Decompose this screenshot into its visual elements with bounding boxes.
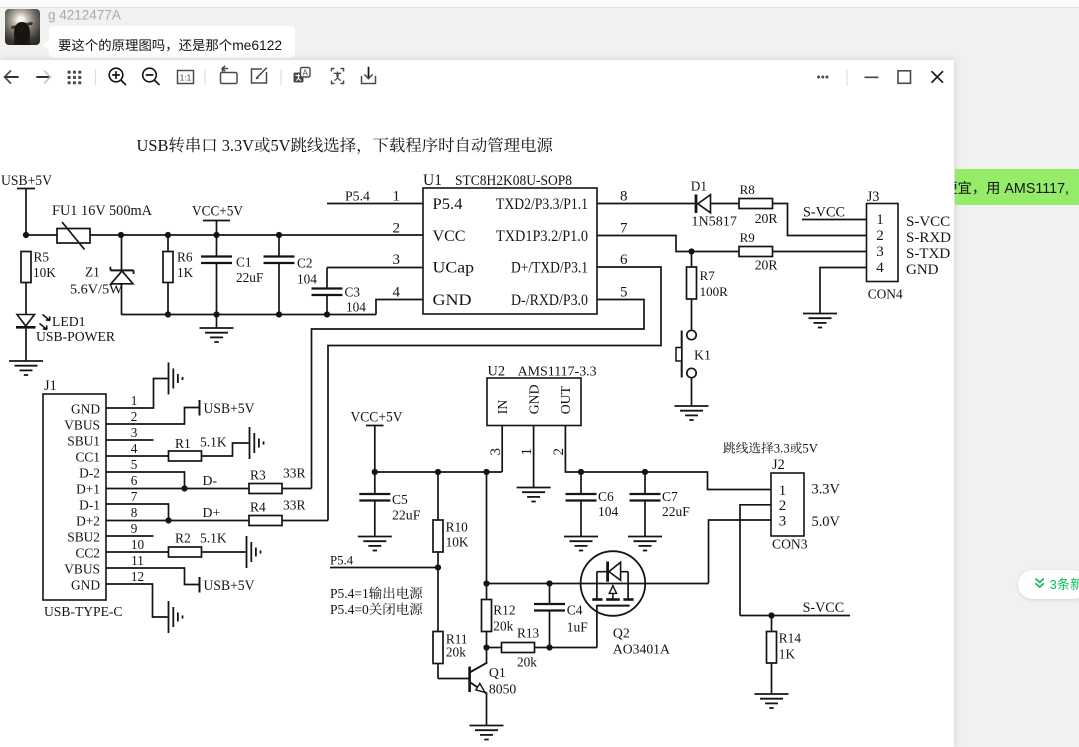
annotation jumper select 3.3 or 5V bbox=[723, 442, 818, 456]
capacitor C5 bbox=[359, 472, 420, 537]
ground J1 pin1 (rotated) bbox=[169, 363, 183, 395]
capacitor C7 bbox=[630, 472, 691, 537]
node bus-C5 bbox=[372, 469, 378, 475]
node rail-R5 bbox=[23, 232, 29, 238]
svg-text:5.1K: 5.1K bbox=[200, 531, 227, 546]
toolbar icon rotate bbox=[221, 66, 238, 84]
resistor R1 bbox=[169, 435, 227, 462]
new message pill text bbox=[1050, 577, 1079, 592]
svg-text:IN: IN bbox=[495, 400, 510, 415]
wire U2 OUT bus bbox=[565, 426, 771, 490]
svg-text:USB+5V: USB+5V bbox=[204, 578, 256, 594]
ground R14 bbox=[755, 694, 789, 708]
svg-text:J2: J2 bbox=[772, 457, 785, 473]
ground LED1 bbox=[9, 361, 43, 375]
svg-text:3: 3 bbox=[876, 244, 884, 260]
diode D1 1N5817 bbox=[691, 179, 737, 230]
svg-text:R14: R14 bbox=[779, 631, 802, 646]
svg-text:D1: D1 bbox=[691, 179, 707, 194]
node out-C7 bbox=[642, 469, 648, 475]
svg-text:5V: 5V bbox=[270, 136, 290, 155]
wire R1 to ground bbox=[202, 443, 249, 456]
toolbar icon zoom in bbox=[109, 68, 125, 84]
resistor R7 bbox=[687, 252, 729, 300]
svg-text:C5: C5 bbox=[392, 492, 408, 507]
svg-text:C6: C6 bbox=[598, 489, 614, 504]
node svcc-R14 bbox=[768, 612, 774, 618]
svg-text:3.3V: 3.3V bbox=[812, 482, 841, 498]
wire J1 pin6 D- bbox=[106, 488, 249, 490]
svg-text:4: 4 bbox=[393, 285, 401, 301]
svg-text:VBUS: VBUS bbox=[64, 561, 100, 576]
new message pill chevron bbox=[1036, 579, 1044, 588]
node rail-C2 bbox=[276, 232, 282, 238]
svg-text:1K: 1K bbox=[779, 647, 796, 662]
avatar bbox=[5, 9, 40, 45]
wire J3 pin4 to ground bbox=[820, 268, 867, 314]
svg-text:SBU1: SBU1 bbox=[67, 433, 100, 448]
ground Q1 bbox=[470, 726, 504, 740]
svg-text:A: A bbox=[303, 68, 309, 77]
svg-text:USB-POWER: USB-POWER bbox=[36, 329, 116, 344]
svg-text:104: 104 bbox=[598, 504, 619, 519]
svg-text:AMS1117-3.3: AMS1117-3.3 bbox=[518, 365, 597, 380]
ground R1 (rotated) bbox=[250, 427, 264, 459]
wire VCC rail bbox=[26, 234, 423, 236]
resistor R11 bbox=[433, 568, 468, 679]
node rail-C1-VCC bbox=[213, 232, 219, 238]
ground U2 bbox=[517, 488, 551, 502]
node row-R12 bbox=[483, 580, 489, 586]
svg-text:4: 4 bbox=[131, 441, 138, 456]
wire J2 pin2 to S-VCC bbox=[740, 505, 771, 616]
svg-text:20k: 20k bbox=[493, 619, 513, 634]
resistor R10 bbox=[433, 472, 469, 568]
wire J1 pin11 to USB+5V bbox=[106, 568, 199, 585]
chat bubble tail bbox=[42, 40, 49, 50]
svg-text:R5: R5 bbox=[34, 249, 50, 264]
svg-text:3: 3 bbox=[131, 425, 138, 440]
resistor R2 bbox=[169, 531, 227, 558]
ground J1 pin12 (rotated) bbox=[169, 601, 183, 633]
svg-text:4: 4 bbox=[876, 260, 884, 276]
svg-text:1:1: 1:1 bbox=[180, 73, 192, 83]
zener diode Z1 bbox=[85, 235, 134, 315]
wire J1 pin5 to D- node bbox=[106, 472, 185, 489]
svg-text:7: 7 bbox=[131, 489, 138, 504]
svg-text:g 4212477A: g 4212477A bbox=[48, 8, 121, 23]
svg-text:R13: R13 bbox=[517, 626, 540, 641]
chat window title strip bbox=[0, 0, 1079, 8]
svg-text:11: 11 bbox=[131, 553, 144, 568]
svg-text:D-/RXD/P3.0: D-/RXD/P3.0 bbox=[511, 292, 588, 309]
svg-text:R1: R1 bbox=[175, 436, 191, 451]
svg-text:K1: K1 bbox=[694, 349, 711, 364]
svg-text:D-: D- bbox=[203, 473, 218, 488]
resistor R14 bbox=[767, 616, 802, 695]
IC U1 STC8H2K08U-SOP8 bbox=[423, 172, 597, 314]
wire R7 to K1 bbox=[691, 299, 693, 330]
svg-text:D+/TXD/P3.1: D+/TXD/P3.1 bbox=[511, 260, 588, 277]
svg-text:SBU2: SBU2 bbox=[67, 529, 100, 544]
resistor R9 bbox=[739, 230, 778, 273]
svg-text:TXD1P3.2/P1.0: TXD1P3.2/P1.0 bbox=[496, 228, 588, 245]
svg-text:R9: R9 bbox=[740, 230, 755, 245]
wire VCC bus to U2 IN bbox=[375, 471, 502, 473]
svg-text:3.3V: 3.3V bbox=[222, 136, 254, 155]
schematic title bbox=[137, 136, 553, 155]
node R12-R13-Q1 bbox=[483, 644, 489, 650]
svg-text:R3: R3 bbox=[250, 468, 266, 483]
resistor R6 bbox=[163, 235, 194, 315]
svg-text:10K: 10K bbox=[446, 535, 469, 550]
node out-C6 bbox=[578, 469, 584, 475]
wire J1 pin1 to ground bbox=[106, 379, 168, 409]
svg-text:USB+5V: USB+5V bbox=[204, 401, 256, 417]
node D+ bbox=[165, 517, 171, 523]
svg-text:U2: U2 bbox=[488, 364, 505, 380]
toolbar icon 1:1 bbox=[178, 71, 194, 84]
toolbar icon grid bbox=[68, 71, 82, 85]
toolbar icon translate bbox=[294, 68, 311, 83]
svg-text:5.6V/5W: 5.6V/5W bbox=[70, 282, 123, 297]
wire R13 to gate bbox=[535, 647, 597, 649]
capacitor C2 bbox=[264, 235, 318, 315]
svg-text:USB+5V: USB+5V bbox=[1, 173, 52, 189]
node bus-Q2 source branch bbox=[483, 469, 489, 475]
node P5.4-R10-R11 bbox=[435, 564, 441, 570]
svg-text:5.1K: 5.1K bbox=[200, 435, 227, 450]
resistor R8 bbox=[739, 182, 778, 226]
wire Q2 source-drain row bbox=[487, 583, 709, 585]
svg-text:1K: 1K bbox=[177, 265, 194, 280]
svg-text:R7: R7 bbox=[700, 268, 716, 283]
wire J1 pin3 SBU1 stub bbox=[106, 439, 154, 441]
wire U1 pin3 UCap bbox=[327, 267, 423, 269]
svg-text:VBUS: VBUS bbox=[64, 417, 100, 432]
svg-text:3: 3 bbox=[779, 513, 787, 529]
wire U2 IN pin bbox=[501, 426, 503, 473]
wire VCC to Q2 source row bbox=[486, 472, 488, 584]
svg-text:104: 104 bbox=[346, 300, 366, 315]
resistor R3 bbox=[249, 466, 306, 494]
wire R5 to LED1 bbox=[25, 283, 27, 315]
svg-text:C3: C3 bbox=[345, 285, 361, 300]
annotation P5.4=0 bbox=[330, 602, 422, 617]
svg-text:D-1: D-1 bbox=[79, 497, 100, 512]
wire U1 pin7 to R9 bbox=[597, 236, 739, 252]
toolbar icon download bbox=[362, 68, 376, 84]
wire U2 GND pin bbox=[533, 426, 535, 488]
window more button bbox=[817, 76, 828, 79]
svg-text:1: 1 bbox=[131, 393, 138, 408]
chat bubble text bbox=[59, 38, 282, 53]
power flag USB+5V at J1 pin11 bbox=[200, 577, 256, 594]
toolbar icon back bbox=[5, 71, 19, 83]
wire S-VCC row bbox=[740, 615, 850, 617]
svg-text:CON4: CON4 bbox=[868, 287, 903, 302]
svg-text:3.3: 3.3 bbox=[774, 442, 790, 456]
svg-text:1N5817: 1N5817 bbox=[691, 215, 737, 230]
transistor Q1 8050 bbox=[470, 648, 517, 726]
wire U1 pin6 D+ net bbox=[328, 267, 661, 521]
svg-text:10: 10 bbox=[131, 537, 145, 552]
net label P5.4 bbox=[330, 554, 438, 568]
svg-text:me6122: me6122 bbox=[232, 38, 282, 53]
svg-text:Q1: Q1 bbox=[489, 665, 506, 680]
svg-text:VCC: VCC bbox=[433, 228, 466, 245]
wire J1 pin10 to R2 bbox=[106, 551, 169, 553]
svg-text:Q2: Q2 bbox=[613, 626, 630, 641]
node gndrail-C3 bbox=[324, 311, 330, 317]
node R9-R7 junction bbox=[688, 248, 694, 254]
wire USB+5V to rail bbox=[25, 189, 27, 236]
svg-text:8: 8 bbox=[620, 189, 628, 205]
svg-text:D+2: D+2 bbox=[76, 513, 100, 528]
wire J1 pin7 to D+ node bbox=[106, 504, 169, 521]
svg-text:P5.4=0: P5.4=0 bbox=[330, 602, 369, 617]
ground C1 bbox=[200, 315, 234, 343]
wire U1 pin5 D- net bbox=[312, 300, 645, 489]
capacitor C3 bbox=[312, 268, 367, 315]
svg-text:7: 7 bbox=[620, 221, 628, 237]
svg-text:2: 2 bbox=[393, 221, 401, 237]
svg-text:6: 6 bbox=[620, 252, 628, 268]
power flag USB+5V top-left bbox=[1, 173, 52, 189]
svg-text:5: 5 bbox=[131, 457, 138, 472]
svg-text:VCC+5V: VCC+5V bbox=[351, 410, 404, 426]
ground C6 bbox=[564, 537, 598, 551]
node gndrail-R6 bbox=[165, 311, 171, 317]
window close button bbox=[932, 71, 944, 83]
svg-text:VCC+5V: VCC+5V bbox=[192, 204, 244, 220]
toolbar icon forward (disabled) bbox=[37, 71, 51, 83]
chat bubble bbox=[49, 26, 295, 58]
svg-text:C1: C1 bbox=[236, 255, 252, 270]
avatar dark figure bbox=[14, 22, 30, 45]
wire R8 to J3 pin2 bbox=[773, 204, 867, 236]
green chat bubble (partially hidden) bbox=[955, 169, 1079, 205]
wire J1 pin12 to ground bbox=[106, 584, 168, 617]
svg-text:22uF: 22uF bbox=[662, 504, 690, 519]
wire R12 to R13 bbox=[487, 647, 502, 649]
wire R3 to pin5 net bbox=[282, 488, 312, 490]
svg-text:P5.4=1: P5.4=1 bbox=[330, 586, 369, 601]
svg-text:S-VCC: S-VCC bbox=[803, 205, 845, 221]
svg-text:1: 1 bbox=[393, 189, 401, 205]
ground R2 (rotated) bbox=[247, 536, 261, 568]
wire J1 pin2 to USB+5V bbox=[106, 408, 199, 425]
svg-text:C7: C7 bbox=[662, 489, 678, 504]
svg-text:STC8H2K08U-SOP8: STC8H2K08U-SOP8 bbox=[455, 173, 572, 189]
svg-text:2: 2 bbox=[779, 498, 787, 514]
annotation P5.4=1 bbox=[330, 586, 422, 601]
wire U1 pin1 P5.4 bbox=[327, 189, 423, 204]
resistor R5 bbox=[21, 249, 56, 282]
svg-text:LED1: LED1 bbox=[52, 314, 86, 329]
connector J3 CON4 bbox=[867, 189, 904, 302]
svg-text:CON3: CON3 bbox=[772, 537, 808, 552]
window minimize button bbox=[865, 76, 879, 78]
svg-text:P5.4: P5.4 bbox=[330, 554, 354, 568]
ground J3 bbox=[803, 314, 837, 328]
capacitor C6 bbox=[566, 472, 619, 537]
svg-text:20R: 20R bbox=[755, 258, 779, 273]
svg-text:FU1 16V 500mA: FU1 16V 500mA bbox=[52, 203, 153, 219]
window maximize button bbox=[898, 71, 911, 84]
new message pill bbox=[1018, 570, 1079, 599]
svg-text:U1: U1 bbox=[423, 172, 442, 189]
svg-text:33R: 33R bbox=[283, 466, 306, 481]
svg-text:P5.4: P5.4 bbox=[433, 196, 463, 213]
node bus-R10 bbox=[435, 469, 441, 475]
svg-text:20k: 20k bbox=[517, 655, 537, 670]
svg-text:20R: 20R bbox=[755, 211, 779, 226]
toolbar icon edit bbox=[252, 68, 267, 83]
svg-text:CC1: CC1 bbox=[75, 449, 100, 464]
toolbar separator 1 bbox=[95, 69, 97, 85]
node gndrail-C2 bbox=[276, 311, 282, 317]
svg-text:USB: USB bbox=[137, 136, 169, 155]
svg-text:12: 12 bbox=[131, 569, 144, 584]
wire J1 pin8 D+ bbox=[106, 520, 249, 522]
transistor Q2 AO3401A bbox=[581, 551, 670, 656]
fuse FU1 bbox=[52, 203, 153, 250]
svg-text:S-RXD: S-RXD bbox=[906, 230, 951, 246]
svg-text:1: 1 bbox=[779, 483, 787, 499]
capacitor C4 bbox=[534, 584, 588, 648]
node row-C4 bbox=[546, 580, 552, 586]
resistor R4 bbox=[249, 498, 306, 526]
wire U1 pin4 GND bbox=[376, 300, 423, 315]
svg-text:20k: 20k bbox=[446, 644, 466, 659]
svg-text:10K: 10K bbox=[33, 265, 56, 280]
wire R9 to J3 pin3 bbox=[773, 251, 867, 253]
svg-text:R8: R8 bbox=[740, 182, 755, 197]
svg-text:OUT: OUT bbox=[558, 385, 573, 414]
node rail-R6 bbox=[165, 232, 171, 238]
svg-text:R2: R2 bbox=[175, 531, 191, 546]
toolbar separator 2 bbox=[204, 69, 206, 85]
wire J1 pin9 SBU2 stub bbox=[106, 535, 154, 537]
svg-text:USB-TYPE-C: USB-TYPE-C bbox=[44, 604, 123, 619]
node rail-Z1 bbox=[118, 232, 124, 238]
LED LED1 bbox=[16, 314, 116, 361]
resistor R12 bbox=[482, 584, 516, 648]
svg-text:CC2: CC2 bbox=[75, 545, 100, 560]
svg-text:6: 6 bbox=[131, 473, 138, 488]
svg-text:9: 9 bbox=[131, 521, 138, 536]
svg-text:J1: J1 bbox=[44, 378, 57, 394]
svg-text:1: 1 bbox=[876, 212, 884, 228]
connector J1 USB-TYPE-C bbox=[43, 378, 106, 600]
wire Q2 gate to R13 bbox=[596, 606, 598, 648]
svg-text:R12: R12 bbox=[493, 603, 515, 618]
svg-text:22uF: 22uF bbox=[392, 508, 421, 523]
wire R11 to Q1 base bbox=[438, 678, 470, 680]
svg-text:1uF: 1uF bbox=[567, 620, 589, 635]
svg-text:S-VCC: S-VCC bbox=[803, 600, 845, 616]
svg-text:S-VCC: S-VCC bbox=[906, 214, 950, 230]
svg-text:100R: 100R bbox=[700, 284, 729, 299]
svg-text:3: 3 bbox=[393, 252, 401, 268]
svg-text:AMS1117,: AMS1117, bbox=[1004, 181, 1069, 197]
svg-text:D+: D+ bbox=[203, 505, 221, 520]
ground K1 bbox=[675, 406, 709, 420]
svg-text:C2: C2 bbox=[297, 256, 313, 271]
power flag VCC+5V bbox=[192, 204, 244, 236]
wire J1 pin4 to R1 bbox=[106, 455, 169, 457]
resistor R13 bbox=[502, 626, 540, 670]
svg-text:GND: GND bbox=[906, 262, 939, 278]
svg-text:2: 2 bbox=[876, 228, 884, 244]
ground C7 bbox=[628, 537, 662, 551]
wire R2 to ground bbox=[202, 551, 246, 553]
net label S-VCC at J3 bbox=[802, 205, 867, 221]
svg-text:5V: 5V bbox=[802, 442, 818, 456]
power flag USB+5V at J1 pin2 bbox=[200, 400, 256, 417]
wire U1 pin8 to D1 bbox=[597, 203, 695, 205]
svg-text:33R: 33R bbox=[283, 498, 306, 513]
svg-text:AO3401A: AO3401A bbox=[613, 642, 670, 657]
toolbar icon zoom out bbox=[143, 68, 159, 84]
node D- bbox=[181, 485, 187, 491]
svg-text:22uF: 22uF bbox=[236, 270, 263, 285]
node gndrail-C1-gnd bbox=[213, 311, 219, 317]
ground C5 bbox=[358, 537, 392, 551]
svg-text:8050: 8050 bbox=[489, 681, 517, 696]
connector J2 CON3 bbox=[771, 457, 808, 552]
switch K1 bbox=[676, 330, 711, 377]
svg-text:D-2: D-2 bbox=[79, 465, 100, 480]
svg-text:P5.4: P5.4 bbox=[345, 189, 370, 204]
svg-text:Z1: Z1 bbox=[85, 265, 100, 280]
svg-text:R6: R6 bbox=[177, 250, 193, 265]
svg-text:R10: R10 bbox=[446, 520, 469, 535]
svg-text:104: 104 bbox=[297, 272, 317, 287]
svg-text:GND: GND bbox=[71, 577, 100, 592]
wire J2 pin3 to Q2 drain bbox=[709, 520, 772, 584]
svg-text:8: 8 bbox=[131, 505, 138, 520]
wire R4 to pin6 net bbox=[282, 520, 328, 522]
svg-text:UCap: UCap bbox=[433, 260, 475, 277]
svg-text:GND: GND bbox=[433, 292, 472, 309]
node R13-C4-gate bbox=[546, 644, 552, 650]
svg-text:5: 5 bbox=[620, 285, 628, 301]
svg-text:D+1: D+1 bbox=[76, 481, 100, 496]
svg-text:S-TXD: S-TXD bbox=[906, 246, 950, 262]
svg-text:R4: R4 bbox=[250, 500, 266, 515]
capacitor C1 bbox=[201, 235, 263, 315]
svg-text:GND: GND bbox=[71, 401, 100, 416]
svg-text:3: 3 bbox=[1050, 577, 1057, 592]
IC U2 AMS1117-3.3 bbox=[487, 364, 597, 426]
svg-text:2: 2 bbox=[131, 409, 138, 424]
toolbar separator 3 bbox=[280, 69, 282, 85]
wire GND rail bottom bbox=[121, 314, 376, 316]
svg-text:GND: GND bbox=[526, 384, 541, 414]
green bubble text bbox=[944, 181, 1069, 197]
power flag VCC+5V mid bbox=[351, 410, 404, 473]
wire K1 to ground bbox=[691, 378, 693, 406]
svg-text:J3: J3 bbox=[867, 189, 880, 205]
wire D1 to R8 bbox=[711, 203, 740, 205]
window controls separator bbox=[846, 69, 848, 86]
svg-text:C4: C4 bbox=[567, 603, 583, 618]
toolbar icon extract text bbox=[332, 69, 344, 84]
svg-text:5.0V: 5.0V bbox=[812, 514, 841, 530]
svg-text:TXD2/P3.3/P1.1: TXD2/P3.3/P1.1 bbox=[496, 196, 588, 213]
